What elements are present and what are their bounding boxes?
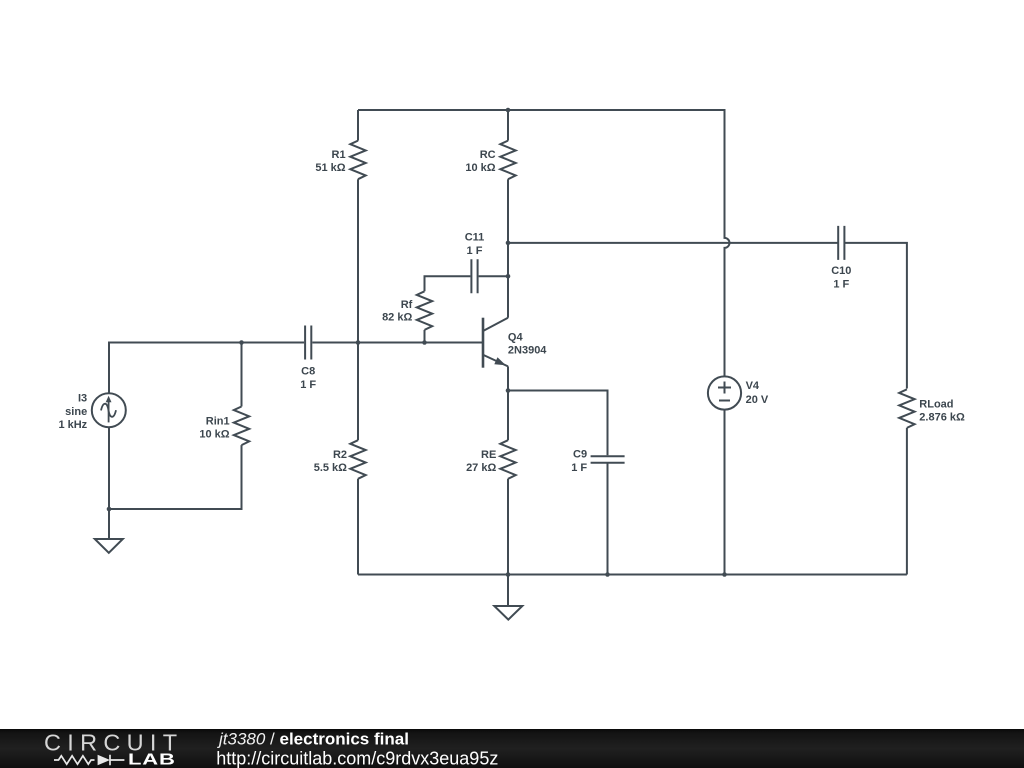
wire C11 feedback loop [425, 276, 509, 291]
svg-text:C10: C10 [831, 265, 851, 277]
node dot emitter [506, 388, 511, 393]
resistor RLoad [899, 389, 914, 428]
resistor R2 [350, 440, 365, 479]
svg-text:sine: sine [65, 406, 87, 418]
transistor Q4 2N3904 [482, 318, 485, 368]
svg-text:1 F: 1 F [571, 462, 587, 474]
CircuitLab logo resistor-diode glyph [54, 755, 124, 766]
wire R1/R2 column x=358 [357, 110, 359, 575]
wire emitter node down and right to C9 [508, 366, 608, 574]
svg-text:LAB: LAB [128, 751, 176, 768]
svg-text:C11: C11 [465, 232, 485, 244]
wire Rf bottom to base wire [424, 330, 426, 343]
node dot C11/collector [506, 274, 511, 279]
wire I3 bottom to ground [108, 427, 110, 539]
svg-text:2.876 kΩ: 2.876 kΩ [919, 411, 965, 423]
svg-text:5.5 kΩ: 5.5 kΩ [314, 462, 347, 474]
svg-text:RE: RE [481, 449, 496, 461]
resistor RC [500, 141, 515, 180]
resistor Rf [417, 291, 432, 330]
capacitor C8 [305, 326, 311, 360]
footer bar [0, 729, 1024, 768]
voltage source V4 [708, 376, 741, 409]
svg-text:1 kHz: 1 kHz [58, 419, 87, 431]
wire RC/collector column x=508 [507, 110, 509, 318]
resistor RE [500, 440, 515, 479]
wire V4 bottom to ground rail [724, 410, 726, 575]
svg-text:20 V: 20 V [746, 394, 769, 406]
wire base node C8 to Q4 base [312, 342, 482, 344]
node dot Rin1/base wire [239, 340, 244, 345]
wire top rail from R1 top to V4 column with hop over output wire [358, 110, 730, 376]
capacitor C10 [838, 226, 844, 260]
svg-text:27 kΩ: 27 kΩ [466, 462, 496, 474]
svg-text:R2: R2 [333, 449, 347, 461]
svg-text:C9: C9 [573, 449, 587, 461]
svg-text:1 F: 1 F [833, 278, 849, 290]
svg-text:10 kΩ: 10 kΩ [199, 429, 229, 441]
resistor Rin1 [234, 407, 249, 446]
node dot V4 ground [722, 572, 727, 577]
svg-text:51 kΩ: 51 kΩ [315, 162, 345, 174]
Q4 emitter arrow head [494, 357, 506, 365]
wire collector node output to C10 and RLoad top [508, 243, 907, 389]
svg-text:Q4: Q4 [508, 331, 524, 343]
current source I3 [92, 393, 126, 427]
wire Rin1 top to input wire [241, 343, 243, 407]
node dot C9 ground [605, 572, 610, 577]
svg-text:Rin1: Rin1 [206, 416, 230, 428]
wire input node I3 top to C8 [109, 343, 304, 394]
svg-text:2N3904: 2N3904 [508, 345, 547, 357]
svg-text:82 kΩ: 82 kΩ [382, 312, 412, 324]
svg-text:Rf: Rf [401, 299, 413, 311]
svg-text:http://circuitlab.com/c9rdvx3e: http://circuitlab.com/c9rdvx3eua95z [216, 748, 498, 768]
capacitor C9 [591, 456, 625, 463]
capacitor C11 [471, 259, 477, 293]
I3 arrow head [106, 396, 112, 403]
node dot RC top rail [506, 108, 511, 113]
svg-text:V4: V4 [746, 380, 760, 392]
resistor R1 [350, 141, 365, 180]
svg-text:10 kΩ: 10 kΩ [465, 162, 495, 174]
node dot I3 bottom [107, 507, 112, 512]
wire bottom-left to Rin1 [109, 445, 242, 509]
wire RLoad bottom to ground rail [906, 428, 908, 575]
wire ground stem under RE [507, 575, 509, 607]
ground GND2 [494, 606, 522, 620]
node dot R1/R2 base wire [356, 340, 361, 345]
node dot Rf/base wire [422, 340, 427, 345]
wire ground rail [358, 574, 907, 576]
svg-text:1 F: 1 F [300, 379, 316, 391]
svg-text:R1: R1 [332, 149, 346, 161]
node dot collector/output [506, 241, 511, 246]
svg-text:jt3380 / electronics final: jt3380 / electronics final [217, 729, 409, 748]
svg-text:RC: RC [480, 149, 496, 161]
svg-text:1 F: 1 F [467, 245, 483, 257]
svg-text:C8: C8 [301, 366, 315, 378]
svg-text:RLoad: RLoad [919, 398, 953, 410]
ground GND1 [95, 539, 123, 553]
node dot RE ground [506, 572, 511, 577]
svg-text:I3: I3 [78, 393, 87, 405]
